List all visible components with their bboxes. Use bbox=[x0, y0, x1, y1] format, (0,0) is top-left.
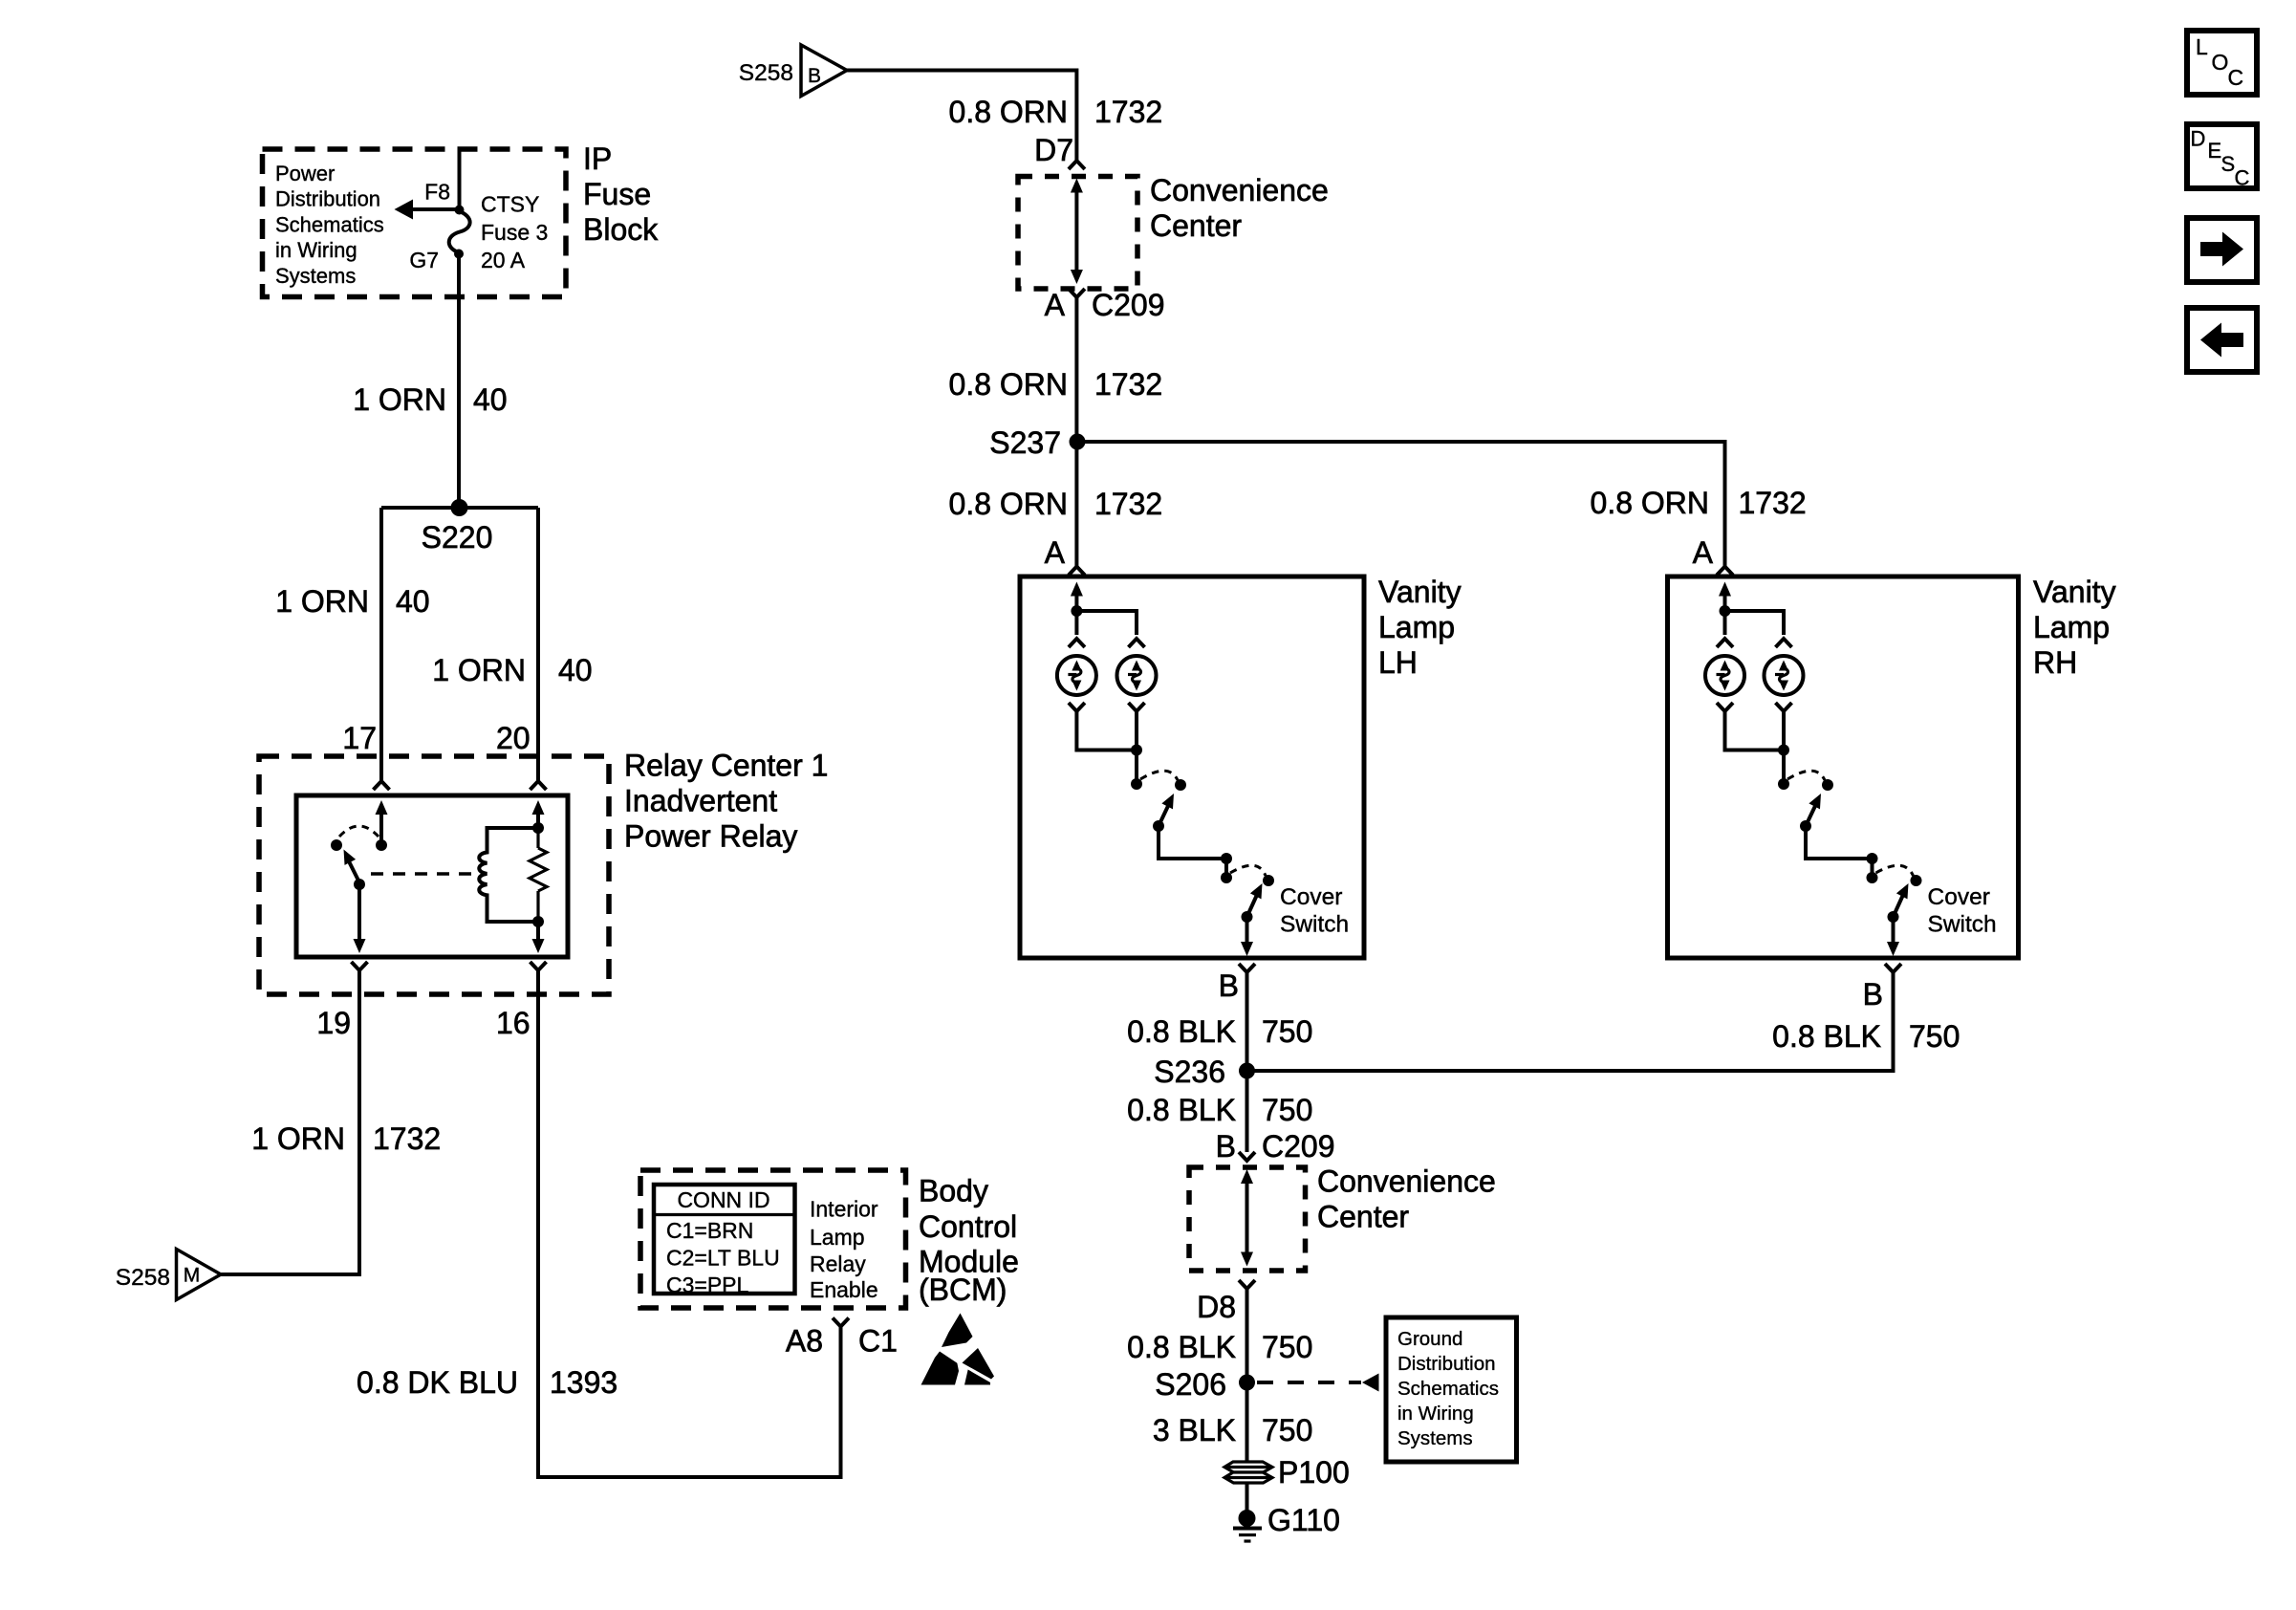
svg-text:40: 40 bbox=[558, 653, 593, 687]
Convenience Center dashed outline (lower) bbox=[1189, 1167, 1306, 1271]
connector pin 20 bbox=[531, 781, 547, 790]
cover switch feed junction bbox=[1867, 853, 1878, 864]
svg-text:LH: LH bbox=[1378, 645, 1418, 680]
svg-text:Inadvertent: Inadvertent bbox=[624, 784, 777, 818]
label 0.8 ORN 1732 (row 3 LH) bbox=[949, 487, 1163, 521]
Ground Distribution note box bbox=[1386, 1317, 1517, 1462]
svg-text:3 BLK: 3 BLK bbox=[1153, 1413, 1236, 1447]
svg-text:E: E bbox=[2208, 139, 2222, 163]
lamp switch pivot bbox=[1800, 820, 1811, 832]
svg-text:F8: F8 bbox=[424, 180, 450, 205]
relay switch second contact bbox=[331, 839, 342, 851]
svg-text:1393: 1393 bbox=[550, 1365, 617, 1400]
label Convenience Center (lower) bbox=[1317, 1164, 1496, 1234]
label 0.8 BLK 750 (LH) bbox=[1127, 1014, 1312, 1049]
svg-text:1 ORN: 1 ORN bbox=[353, 382, 446, 417]
svg-text:Interior: Interior bbox=[810, 1197, 878, 1222]
wire 0.8 BLK 750 (S236 to C209) bbox=[1245, 1071, 1249, 1152]
svg-text:C: C bbox=[2228, 65, 2244, 90]
CONN ID header rule bbox=[654, 1213, 795, 1216]
connector pin A RH bbox=[1717, 567, 1733, 576]
cover switch output arrow bbox=[1241, 917, 1253, 956]
connector pin 19 bbox=[352, 962, 368, 970]
lamp switch contact 1 bbox=[1778, 778, 1789, 790]
cover switch dashed travel arc bbox=[1876, 865, 1914, 876]
convenience center pass-through arrow bbox=[1071, 179, 1083, 285]
bulb 2 bottom connector bbox=[1776, 703, 1792, 711]
relay switch dashed travel arc bbox=[339, 826, 379, 837]
wire P100 to G110 bbox=[1245, 1483, 1249, 1518]
svg-text:Control: Control bbox=[919, 1209, 1017, 1244]
pin label A8 / connector C1 bbox=[786, 1324, 898, 1359]
IP Fuse Block dashed outline bbox=[263, 149, 567, 297]
relay coil bottom node bbox=[532, 916, 544, 927]
svg-text:Relay Center 1: Relay Center 1 bbox=[624, 749, 828, 783]
dashed reference wire to Ground Distribution note bbox=[1257, 1381, 1361, 1384]
svg-text:CONN ID: CONN ID bbox=[677, 1187, 769, 1212]
svg-text:G110: G110 bbox=[1267, 1503, 1340, 1537]
relay pin 20 internal terminal arrow bbox=[532, 800, 545, 828]
svg-text:Lamp: Lamp bbox=[1378, 610, 1455, 644]
bulb 1 bottom connector bbox=[1717, 703, 1733, 711]
wire to bulb 2 bbox=[1076, 611, 1137, 635]
reference arrowhead bbox=[1362, 1374, 1379, 1392]
node G7 (fuse bottom terminal) bbox=[454, 250, 464, 259]
connector pin A LH bbox=[1069, 567, 1085, 576]
splice S220 bar bbox=[381, 506, 538, 510]
label 0.8 BLK 750 (D8-S206) bbox=[1127, 1330, 1312, 1364]
svg-text:Power: Power bbox=[275, 162, 335, 185]
svg-text:C1=BRN: C1=BRN bbox=[666, 1218, 753, 1243]
cover switch contact 2 bbox=[1263, 875, 1274, 886]
bulb 1 bbox=[1057, 656, 1096, 695]
connector pin 16 bbox=[531, 962, 547, 970]
cover switch contact 1 bbox=[1867, 872, 1878, 883]
cover switch movable arm bbox=[1247, 881, 1268, 917]
cover switch dashed travel arc bbox=[1230, 865, 1266, 876]
splice S236 dot bbox=[1239, 1063, 1255, 1079]
grommet P100 bbox=[1224, 1462, 1272, 1483]
wire: fuse feed from top of IP fuse block bbox=[458, 149, 462, 209]
CONN ID table box bbox=[654, 1185, 795, 1294]
label Cover Switch bbox=[1280, 884, 1349, 938]
wire 1 ORN 1732 (relay pin 19 down) bbox=[357, 970, 361, 1274]
label Vanity Lamp RH bbox=[2033, 575, 2116, 680]
wire to bulb 2 bbox=[1725, 611, 1785, 635]
svg-text:A: A bbox=[1045, 535, 1066, 570]
bulb 2 bottom connector bbox=[1129, 703, 1145, 711]
IP Fuse Block label bbox=[583, 141, 659, 247]
lamp switch contact 2 bbox=[1175, 779, 1186, 791]
svg-text:1732: 1732 bbox=[1094, 367, 1162, 402]
wire 1 ORN 40 (fuse G7 down to splice S220) bbox=[457, 254, 461, 509]
svg-text:1732: 1732 bbox=[373, 1121, 441, 1156]
fuse value label CTSY Fuse 3 20 A bbox=[481, 192, 548, 273]
ground G110 dot bbox=[1239, 1510, 1256, 1527]
svg-text:O: O bbox=[2212, 50, 2229, 75]
svg-text:1732: 1732 bbox=[1094, 95, 1162, 129]
connector A C209 (top) bbox=[1069, 289, 1085, 297]
svg-text:S: S bbox=[2221, 152, 2236, 176]
svg-text:Body: Body bbox=[919, 1174, 988, 1208]
ground symbol bbox=[1233, 1529, 1262, 1542]
svg-text:B: B bbox=[1219, 968, 1239, 1003]
wire 0.8 BLK 750 (D8 to S206) bbox=[1245, 1289, 1249, 1382]
svg-text:17: 17 bbox=[342, 721, 377, 755]
svg-text:Enable: Enable bbox=[810, 1277, 878, 1302]
relay coil top node bbox=[532, 822, 544, 834]
lamp feed terminal arrow bbox=[1071, 582, 1083, 612]
label Vanity Lamp LH bbox=[1378, 575, 1462, 680]
wire 0.8 ORN 1732 (S258 B to convenience center D7) bbox=[847, 71, 1076, 161]
svg-text:P100: P100 bbox=[1278, 1455, 1350, 1490]
bulb 2 top connector bbox=[1776, 639, 1792, 647]
svg-text:S220: S220 bbox=[422, 520, 493, 555]
svg-text:1 ORN: 1 ORN bbox=[275, 584, 369, 619]
label Convenience Center (top) bbox=[1150, 173, 1329, 243]
svg-text:S236: S236 bbox=[1154, 1055, 1225, 1089]
off-page reference S258 B triangle bbox=[801, 45, 847, 97]
wire 0.8 BLK 750 (LH lamp to S236) bbox=[1245, 972, 1249, 1071]
svg-text:in Wiring: in Wiring bbox=[1397, 1403, 1474, 1425]
lamp switch movable arm bbox=[1159, 791, 1180, 826]
svg-text:1 ORN: 1 ORN bbox=[251, 1121, 345, 1156]
svg-text:0.8 ORN: 0.8 ORN bbox=[949, 95, 1068, 129]
label 1 ORN 40 (left branch) bbox=[275, 584, 429, 619]
note text Ground Distribution Schematics in Wiring Systems bbox=[1397, 1328, 1499, 1449]
svg-text:A: A bbox=[1693, 535, 1714, 570]
BCM dashed outline bbox=[640, 1170, 906, 1308]
svg-text:750: 750 bbox=[1909, 1019, 1960, 1054]
connector A8 C1 bbox=[833, 1318, 849, 1327]
conn id rows bbox=[666, 1218, 780, 1297]
svg-text:0.8 BLK: 0.8 BLK bbox=[1127, 1014, 1236, 1049]
lamp switch dashed travel arc bbox=[1140, 771, 1178, 780]
svg-text:B: B bbox=[1216, 1129, 1236, 1164]
svg-text:Vanity: Vanity bbox=[2033, 575, 2116, 609]
wire 0.8 BLK 750 (RH lamp to S236) bbox=[1247, 972, 1894, 1071]
relay pin 17 internal terminal arrow bbox=[376, 800, 388, 845]
svg-text:CTSY: CTSY bbox=[481, 192, 539, 217]
connector pin D7 bbox=[1069, 161, 1085, 169]
svg-text:Lamp: Lamp bbox=[2033, 610, 2110, 644]
svg-text:1732: 1732 bbox=[1739, 486, 1807, 520]
relay common terminal arrow (pin 19) bbox=[354, 884, 366, 953]
bulb 1 bbox=[1705, 656, 1744, 695]
svg-text:C209: C209 bbox=[1092, 288, 1165, 322]
lamp feed junction bbox=[1720, 605, 1731, 617]
svg-text:(BCM): (BCM) bbox=[919, 1273, 1007, 1307]
svg-text:B: B bbox=[1863, 977, 1883, 1012]
svg-text:C1: C1 bbox=[858, 1324, 898, 1359]
svg-text:0.8 ORN: 0.8 ORN bbox=[949, 367, 1068, 402]
short wire to cover switch contact bbox=[1224, 859, 1228, 876]
svg-text:Convenience: Convenience bbox=[1317, 1164, 1496, 1199]
splice S206 dot bbox=[1239, 1375, 1255, 1391]
wire 0.8 ORN 1732 (S237 to LH lamp) bbox=[1074, 442, 1078, 566]
svg-text:0.8 ORN: 0.8 ORN bbox=[949, 487, 1068, 521]
svg-text:Switch: Switch bbox=[1280, 912, 1349, 938]
relay switch arm pivot bbox=[354, 879, 365, 890]
wire 3 BLK 750 (S206 to P100) bbox=[1245, 1382, 1249, 1463]
lamp switch pivot bbox=[1153, 820, 1164, 832]
relay coil linkage dashed line bbox=[371, 872, 475, 875]
svg-text:RH: RH bbox=[2033, 645, 2077, 680]
relay coil winding bbox=[479, 828, 538, 922]
svg-text:Center: Center bbox=[1317, 1200, 1409, 1234]
svg-text:Center: Center bbox=[1150, 208, 1242, 243]
junction below bulbs bbox=[1778, 745, 1789, 756]
connector pin D8 bbox=[1239, 1280, 1255, 1289]
svg-text:40: 40 bbox=[473, 382, 508, 417]
wire to lamp switch bbox=[1135, 751, 1138, 783]
lamp switch contact 1 bbox=[1131, 778, 1142, 790]
svg-text:Ground: Ground bbox=[1397, 1328, 1462, 1350]
wire 1 ORN 40 (S220 to relay pin 20) bbox=[536, 508, 540, 780]
wire 1 ORN 40 (S220 to relay pin 17) bbox=[379, 508, 383, 780]
inadvertent power relay body bbox=[296, 795, 568, 957]
cover switch pivot bbox=[1242, 911, 1253, 923]
ESD sensitive device symbol bbox=[921, 1314, 995, 1385]
svg-text:1 ORN: 1 ORN bbox=[432, 653, 526, 687]
cover switch contact 2 bbox=[1911, 875, 1922, 886]
svg-text:D8: D8 bbox=[1197, 1290, 1236, 1324]
label 0.8 BLK 750 (RH) bbox=[1772, 1019, 1960, 1054]
svg-text:750: 750 bbox=[1262, 1014, 1312, 1049]
svg-text:S237: S237 bbox=[989, 425, 1061, 460]
svg-text:Power Relay: Power Relay bbox=[624, 819, 797, 854]
svg-text:IP: IP bbox=[583, 141, 612, 176]
label 3 BLK 750 bbox=[1153, 1413, 1313, 1447]
connector pin B LH bbox=[1239, 964, 1255, 972]
wire bulb outputs joined bbox=[1725, 711, 1785, 751]
pin label B / connector C209 (lower) bbox=[1216, 1129, 1335, 1164]
svg-text:19: 19 bbox=[316, 1006, 351, 1040]
cover switch movable arm bbox=[1894, 881, 1915, 917]
svg-text:A8: A8 bbox=[786, 1324, 823, 1359]
label Relay Center 1 / Inadvertent Power Relay bbox=[624, 749, 828, 854]
svg-text:D7: D7 bbox=[1034, 133, 1073, 167]
junction below bulbs bbox=[1131, 745, 1142, 756]
svg-text:0.8 BLK: 0.8 BLK bbox=[1772, 1019, 1881, 1054]
icon box forward arrow bbox=[2187, 218, 2257, 282]
lamp switch contact 2 bbox=[1822, 779, 1833, 791]
svg-text:Switch: Switch bbox=[1928, 912, 1997, 938]
off-page reference S258 M triangle bbox=[177, 1250, 222, 1300]
svg-text:0.8 ORN: 0.8 ORN bbox=[1591, 486, 1709, 520]
label Interior Lamp Relay Enable bbox=[810, 1197, 878, 1303]
bulb 2 bbox=[1117, 656, 1157, 695]
convenience center pass-through arrow (lower) bbox=[1241, 1169, 1253, 1267]
connector pin 17 bbox=[374, 781, 390, 790]
short wire to cover switch contact bbox=[1871, 859, 1874, 876]
label Cover Switch bbox=[1928, 884, 1997, 938]
bulb 1 top connector bbox=[1069, 639, 1085, 647]
svg-text:Vanity: Vanity bbox=[1378, 575, 1462, 609]
relay switch fixed contact (pin 17) bbox=[376, 839, 387, 851]
splice S237 dot bbox=[1070, 434, 1086, 450]
label 1 ORN 1732 bbox=[251, 1121, 441, 1156]
svg-text:C3=PPL: C3=PPL bbox=[666, 1273, 749, 1297]
label 1 ORN 40 (fuse wire) bbox=[353, 382, 507, 417]
svg-text:Systems: Systems bbox=[1397, 1427, 1473, 1449]
svg-text:C: C bbox=[2235, 166, 2250, 190]
note: Power Distribution Schematics in Wiring Systems bbox=[275, 162, 384, 288]
svg-text:Relay: Relay bbox=[810, 1251, 866, 1276]
Convenience Center dashed outline (top) bbox=[1018, 177, 1137, 290]
connector B C209 (lower) bbox=[1239, 1152, 1255, 1161]
label 0.8 ORN 1732 (row 2) bbox=[949, 367, 1163, 402]
svg-text:G7: G7 bbox=[409, 248, 439, 272]
lamp feed junction bbox=[1071, 605, 1082, 617]
svg-text:A: A bbox=[1045, 288, 1066, 322]
svg-text:Block: Block bbox=[583, 212, 659, 247]
cover switch pivot bbox=[1888, 911, 1899, 923]
lamp feed terminal arrow bbox=[1719, 582, 1731, 612]
svg-text:0.8 BLK: 0.8 BLK bbox=[1127, 1093, 1236, 1127]
splice S220 dot bbox=[451, 499, 468, 516]
label 0.8 DK BLU 1393 bbox=[357, 1365, 617, 1400]
label 0.8 ORN 1732 (row 1) bbox=[949, 95, 1163, 129]
cover switch output arrow bbox=[1887, 917, 1899, 956]
svg-text:Schematics: Schematics bbox=[275, 212, 384, 236]
svg-text:L: L bbox=[2196, 34, 2208, 59]
Vanity Lamp RH box bbox=[1668, 577, 2019, 958]
wire to bulb 1 bbox=[1074, 611, 1078, 635]
svg-text:750: 750 bbox=[1262, 1330, 1312, 1364]
svg-text:C2=LT BLU: C2=LT BLU bbox=[666, 1246, 780, 1271]
relay switch movable arm bbox=[338, 847, 359, 882]
svg-text:16: 16 bbox=[496, 1006, 531, 1040]
svg-text:S258: S258 bbox=[116, 1265, 170, 1291]
wire 0.8 DK BLU 1393 (relay pin 16 to BCM A8) bbox=[538, 970, 841, 1477]
svg-text:Lamp: Lamp bbox=[810, 1225, 865, 1250]
svg-text:0.8 DK BLU: 0.8 DK BLU bbox=[357, 1365, 518, 1400]
lamp switch movable arm bbox=[1806, 791, 1827, 826]
wire to lamp switch bbox=[1782, 751, 1786, 783]
svg-text:40: 40 bbox=[396, 584, 430, 619]
svg-text:Cover: Cover bbox=[1280, 884, 1342, 910]
svg-text:0.8 BLK: 0.8 BLK bbox=[1127, 1330, 1236, 1364]
connector pin B RH bbox=[1885, 964, 1901, 972]
svg-text:Systems: Systems bbox=[275, 264, 356, 288]
Vanity Lamp LH box bbox=[1020, 577, 1364, 958]
svg-text:Schematics: Schematics bbox=[1397, 1378, 1499, 1400]
wire 0.8 ORN 1732 (S237 to RH lamp) bbox=[1077, 442, 1725, 566]
svg-text:S206: S206 bbox=[1155, 1367, 1226, 1402]
Relay Center 1 dashed outline bbox=[259, 756, 609, 994]
cover switch feed junction bbox=[1221, 853, 1232, 864]
label Body Control Module (BCM) bbox=[919, 1174, 1019, 1308]
wire switch to cover switch bbox=[1159, 826, 1226, 859]
svg-text:Fuse: Fuse bbox=[583, 177, 651, 211]
wire 0.8 ORN 1732 (C209 to S237) bbox=[1074, 297, 1078, 442]
icon box back arrow bbox=[2187, 308, 2257, 372]
node F8 (fuse top terminal) bbox=[455, 206, 465, 215]
bulb 1 top connector bbox=[1717, 639, 1733, 647]
relay coil terminal arrow (pin 16) bbox=[532, 922, 545, 953]
svg-text:in Wiring: in Wiring bbox=[275, 238, 357, 262]
svg-text:Distribution: Distribution bbox=[275, 187, 380, 211]
svg-text:D: D bbox=[2191, 127, 2206, 151]
pin label A / connector C209 bbox=[1045, 288, 1165, 322]
bulb 1 bottom connector bbox=[1069, 703, 1085, 711]
label 1 ORN 40 (right branch) bbox=[432, 653, 592, 687]
wire to S258 M bbox=[221, 1273, 361, 1276]
svg-text:750: 750 bbox=[1262, 1413, 1312, 1447]
wire bulb outputs joined bbox=[1076, 711, 1137, 751]
svg-text:B: B bbox=[808, 65, 821, 87]
wire switch to cover switch bbox=[1806, 826, 1873, 859]
arrow to F8 power distribution bbox=[395, 200, 460, 220]
svg-text:20 A: 20 A bbox=[481, 248, 526, 272]
svg-text:750: 750 bbox=[1262, 1093, 1312, 1127]
svg-text:Cover: Cover bbox=[1928, 884, 1990, 910]
relay coil resistor bbox=[530, 812, 547, 922]
wire to bulb 1 bbox=[1723, 611, 1727, 635]
svg-text:20: 20 bbox=[496, 721, 531, 755]
svg-text:Distribution: Distribution bbox=[1397, 1353, 1496, 1375]
bulb 2 top connector bbox=[1129, 639, 1145, 647]
svg-text:S258: S258 bbox=[739, 60, 793, 86]
bulb 2 bbox=[1765, 656, 1804, 695]
svg-text:M: M bbox=[184, 1265, 201, 1287]
icon box LOC bbox=[2187, 31, 2257, 95]
label 0.8 BLK 750 (below S236) bbox=[1127, 1093, 1312, 1127]
svg-text:Fuse 3: Fuse 3 bbox=[481, 220, 548, 245]
lamp switch dashed travel arc bbox=[1787, 771, 1825, 780]
svg-text:1732: 1732 bbox=[1094, 487, 1162, 521]
label 0.8 ORN 1732 (RH branch) bbox=[1591, 486, 1807, 520]
cover switch contact 1 bbox=[1221, 872, 1232, 883]
fuse CTSY Fuse 3 20A (element curve) bbox=[449, 211, 470, 252]
svg-text:C209: C209 bbox=[1262, 1129, 1335, 1164]
svg-text:Convenience: Convenience bbox=[1150, 173, 1329, 207]
icon box DESC bbox=[2187, 124, 2257, 190]
